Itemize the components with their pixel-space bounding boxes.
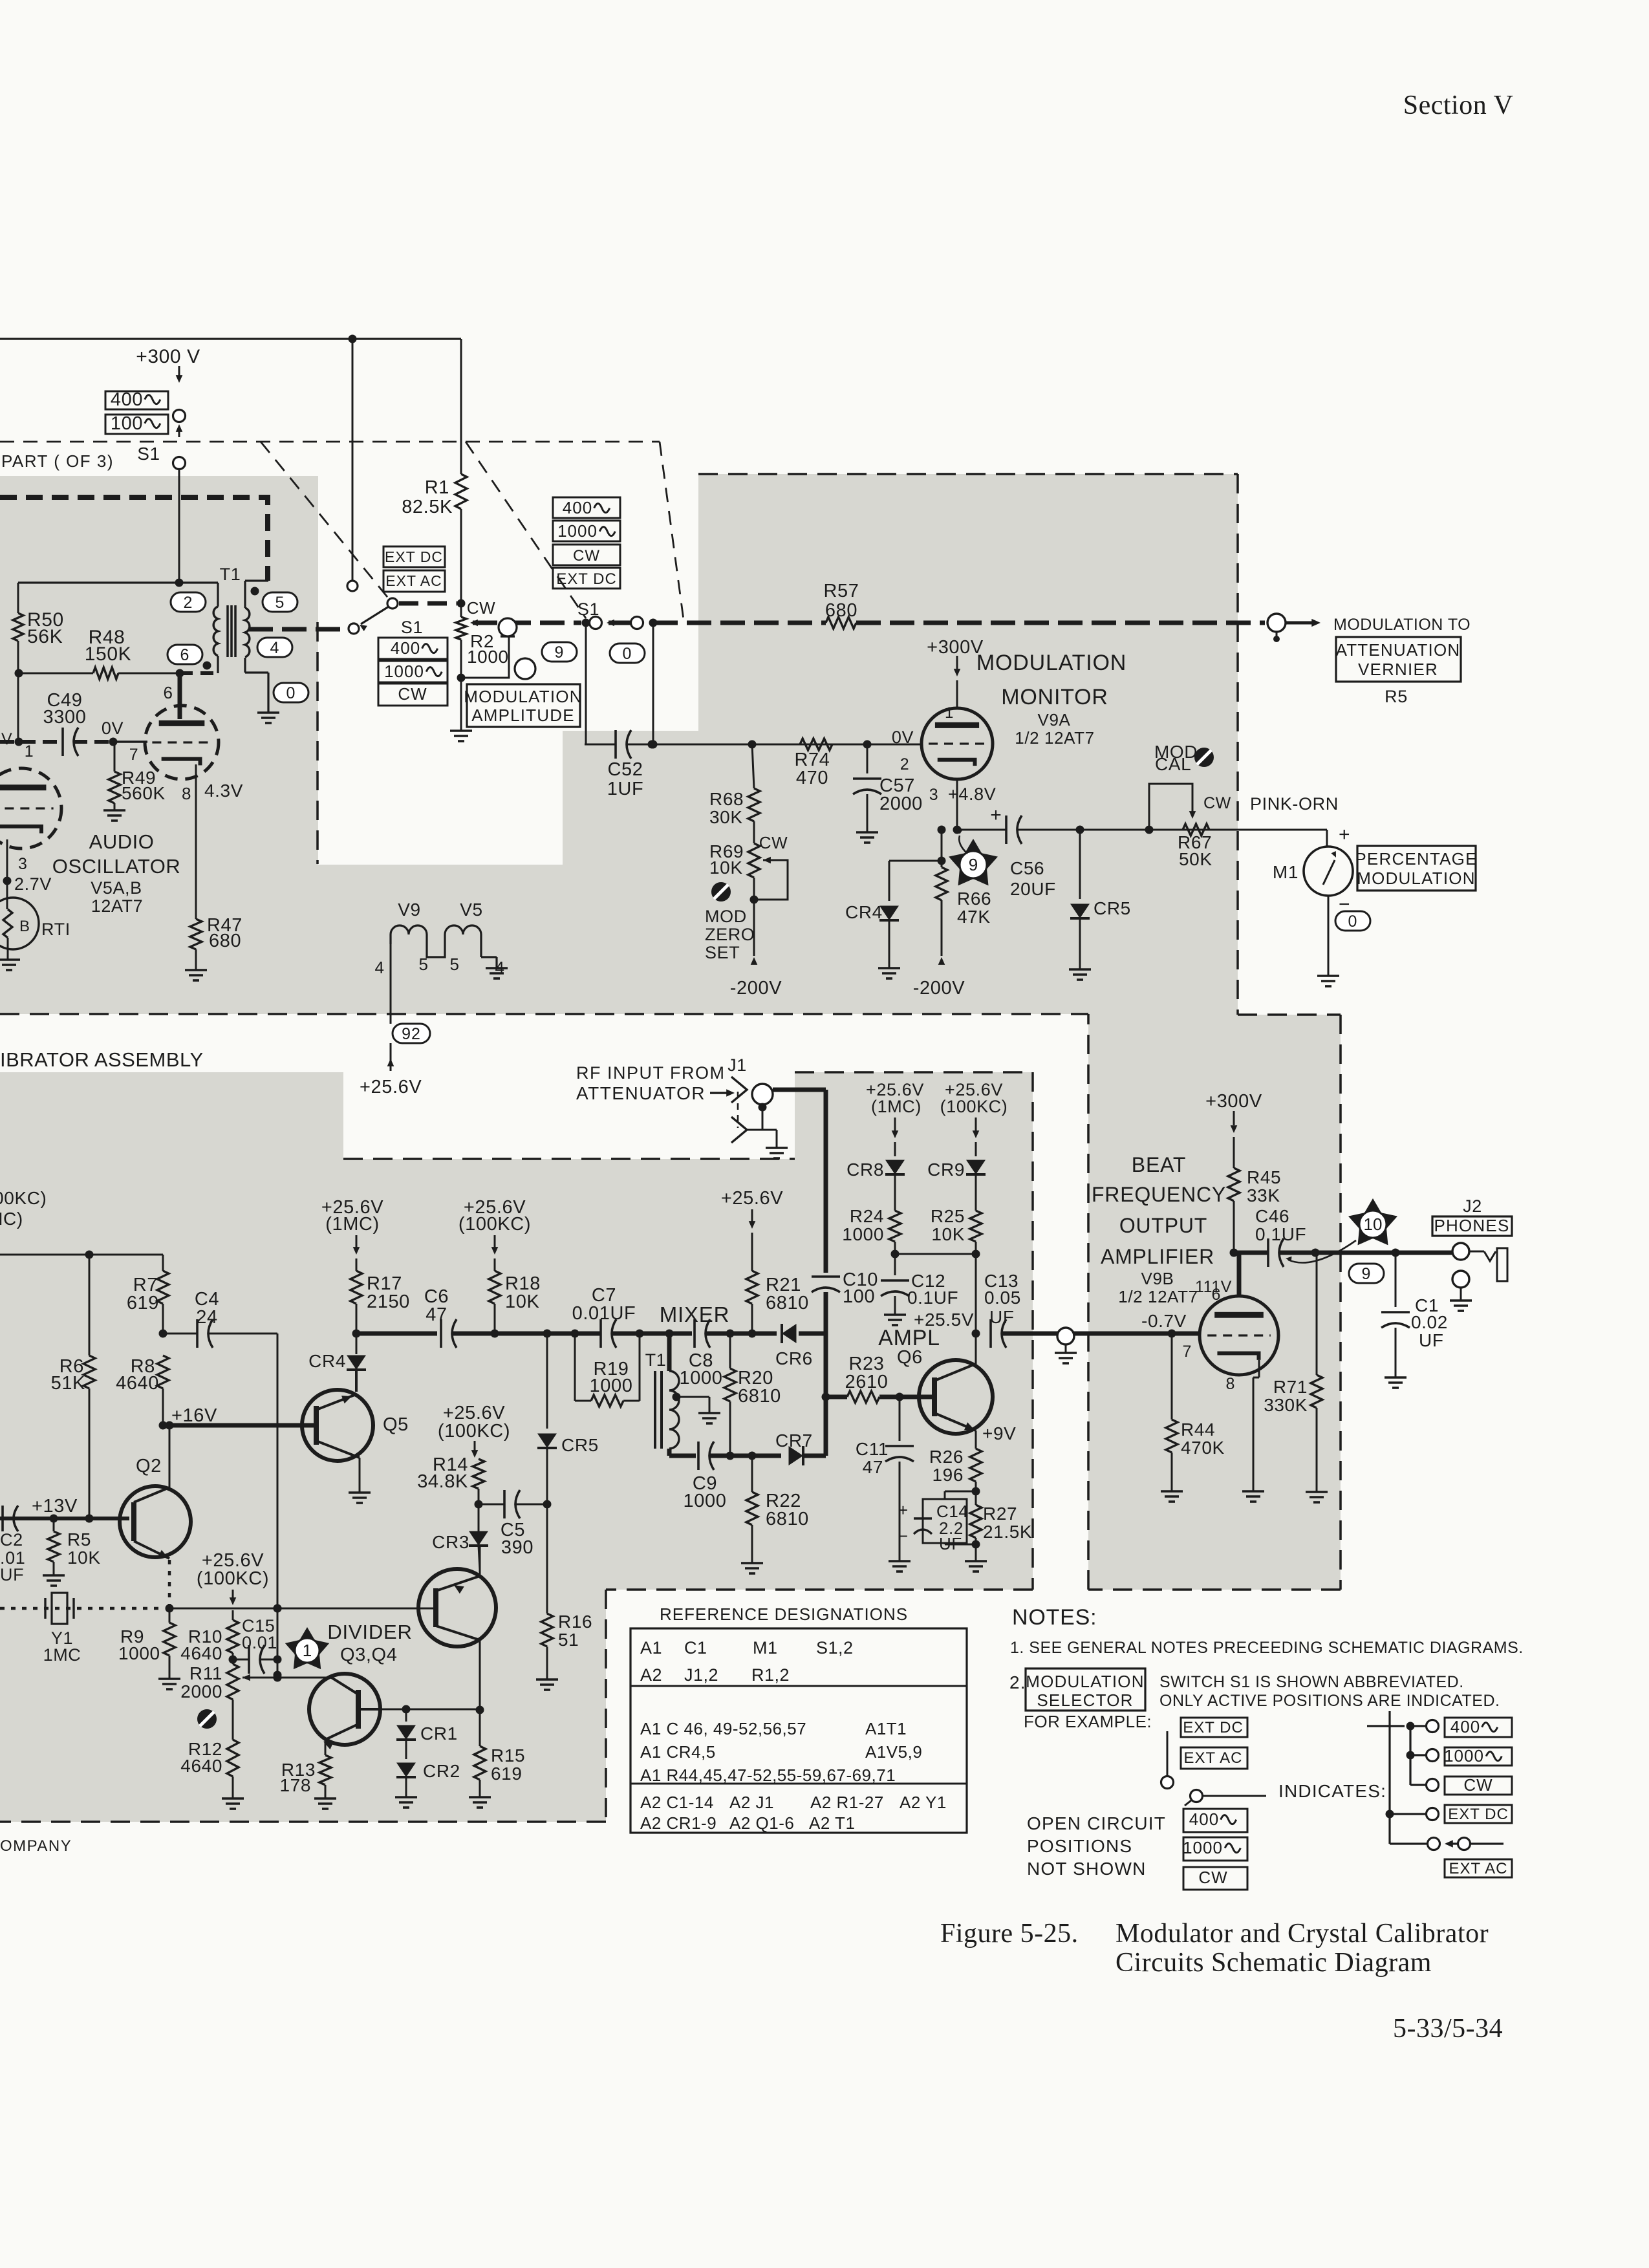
svg-text:EXT DC: EXT DC [556,570,617,588]
svg-text:150K: 150K [85,643,131,665]
svg-text:4640: 4640 [116,1373,159,1394]
svg-text:CW: CW [398,684,427,704]
svg-text:S1,2: S1,2 [816,1638,854,1658]
svg-text:CW: CW [467,598,496,618]
svg-text:47K: 47K [957,907,991,927]
svg-text:RTI: RTI [41,920,70,939]
svg-text:51: 51 [558,1630,579,1650]
svg-text:2150: 2150 [367,1291,410,1312]
svg-text:2.: 2. [1009,1672,1026,1692]
svg-text:+: + [1339,824,1350,845]
svg-text:1000: 1000 [842,1224,884,1244]
svg-text:FOR EXAMPLE:: FOR EXAMPLE: [1024,1712,1152,1731]
svg-text:C11: C11 [856,1439,889,1459]
svg-text:2.7V: 2.7V [14,874,52,894]
svg-text:7: 7 [1182,1343,1192,1361]
svg-text:(100KC): (100KC) [0,1188,47,1208]
svg-text:5-33/5-34: 5-33/5-34 [1393,2014,1503,2044]
svg-text:0V: 0V [102,718,124,738]
svg-text:+13V: +13V [32,1496,78,1517]
svg-text:C52: C52 [608,759,643,780]
svg-text:+300 V: +300 V [136,346,200,367]
svg-text:5: 5 [418,955,428,974]
svg-text:EXT DC: EXT DC [385,548,443,565]
svg-text:Q6: Q6 [897,1347,923,1368]
svg-text:9: 9 [1362,1265,1372,1283]
svg-text:A2 Q1-6: A2 Q1-6 [729,1813,794,1833]
svg-text:1000: 1000 [467,647,509,667]
svg-text:10K: 10K [505,1291,539,1312]
svg-text:4: 4 [270,639,280,657]
svg-text:2000: 2000 [180,1681,222,1701]
svg-text:619: 619 [127,1293,159,1313]
svg-text:NOT SHOWN: NOT SHOWN [1027,1859,1147,1879]
svg-text:400: 400 [391,638,420,658]
svg-text:33K: 33K [1247,1185,1280,1205]
svg-text:Q3,Q4: Q3,Q4 [340,1645,397,1665]
svg-text:−: − [898,1526,908,1546]
svg-text:V9: V9 [398,900,420,920]
svg-text:0V: 0V [892,728,914,747]
svg-text:MODULATION TO: MODULATION TO [1333,616,1471,634]
svg-text:V9B: V9B [1141,1269,1174,1288]
svg-text:A2 J1: A2 J1 [729,1793,774,1812]
svg-text:EXT DC: EXT DC [1448,1806,1509,1823]
svg-text:+25.6V: +25.6V [721,1188,783,1209]
svg-text:CR8: CR8 [846,1160,884,1180]
svg-text:ZERO: ZERO [705,925,755,944]
svg-text:2: 2 [900,755,910,773]
svg-text:EXT AC: EXT AC [1184,1749,1243,1767]
svg-text:8: 8 [182,784,191,803]
svg-text:C2: C2 [0,1530,23,1550]
svg-text:V: V [1,730,12,748]
svg-text:111V: 111V [1195,1278,1232,1296]
svg-text:UF: UF [989,1307,1015,1327]
svg-text:0.01UF: 0.01UF [572,1303,636,1324]
svg-text:UF: UF [1419,1330,1444,1350]
svg-text:R66: R66 [957,889,991,909]
svg-text:M1: M1 [1273,862,1299,882]
svg-text:CR2: CR2 [423,1761,460,1781]
svg-text:100: 100 [111,413,143,434]
svg-text:3: 3 [929,786,939,804]
svg-text:3300: 3300 [43,707,87,728]
svg-text:A1 C 46, 49-52,56,57: A1 C 46, 49-52,56,57 [640,1719,806,1738]
svg-text:NOTES:: NOTES: [1012,1605,1097,1630]
svg-text:OMPANY: OMPANY [0,1837,72,1855]
svg-text:9: 9 [969,855,978,874]
svg-text:82.5K: 82.5K [402,497,453,517]
svg-text:0: 0 [1348,913,1358,931]
svg-text:R24: R24 [850,1206,884,1226]
svg-text:0.1UF: 0.1UF [907,1288,958,1308]
svg-text:470: 470 [796,768,828,788]
svg-text:SWITCH S1 IS SHOWN ABBREVIATED: SWITCH S1 IS SHOWN ABBREVIATED. [1159,1673,1464,1691]
svg-text:A2 CR1-9: A2 CR1-9 [640,1813,717,1833]
svg-text:A1: A1 [640,1638,662,1658]
svg-text:400: 400 [563,498,592,517]
svg-text:FREQUENCY: FREQUENCY [1092,1183,1226,1206]
svg-text:J1,2: J1,2 [684,1665,718,1685]
svg-text:MODULATION: MODULATION [464,687,582,706]
svg-text:0.01: 0.01 [242,1633,277,1652]
svg-text:PART ( OF 3): PART ( OF 3) [1,451,114,471]
svg-text:A1V5,9: A1V5,9 [865,1742,922,1762]
svg-text:R11: R11 [189,1663,222,1683]
svg-text:619: 619 [491,1764,523,1784]
svg-text:CW: CW [1198,1868,1227,1887]
svg-text:10K: 10K [67,1548,101,1568]
svg-text:UF: UF [0,1565,24,1584]
svg-text:CW: CW [1203,794,1231,812]
svg-text:R16: R16 [558,1612,592,1632]
svg-text:A2 C1-14: A2 C1-14 [640,1793,714,1812]
svg-text:2: 2 [184,594,193,612]
svg-text:CR4: CR4 [845,902,883,922]
svg-text:5: 5 [449,955,459,974]
svg-text:EXT DC: EXT DC [1183,1719,1244,1736]
svg-text:VERNIER: VERNIER [1358,660,1438,679]
svg-text:A1T1: A1T1 [865,1719,907,1738]
svg-text:S1: S1 [137,444,160,464]
svg-text:EXT AC: EXT AC [1449,1860,1508,1877]
svg-text:AUDIO: AUDIO [89,830,155,853]
svg-text:1: 1 [303,1641,312,1660]
svg-text:CR5: CR5 [561,1435,599,1455]
svg-text:8: 8 [1225,1375,1235,1393]
svg-text:AMPLITUDE: AMPLITUDE [471,706,575,725]
svg-text:CR5: CR5 [1094,898,1131,918]
svg-text:4: 4 [495,958,504,977]
svg-text:(1MC): (1MC) [0,1209,23,1229]
svg-text:SELECTOR: SELECTOR [1037,1690,1133,1710]
svg-text:EXT AC: EXT AC [385,572,442,589]
svg-text:10K: 10K [931,1224,965,1244]
svg-text:CR1: CR1 [420,1723,458,1744]
svg-text:R57: R57 [824,581,859,601]
svg-text:CR6: CR6 [775,1348,813,1368]
svg-text:A2: A2 [640,1665,662,1685]
svg-text:Q2: Q2 [136,1456,162,1476]
svg-text:(100KC): (100KC) [438,1421,510,1442]
svg-text:A1 R44,45,47-52,55-59,67-69,71: A1 R44,45,47-52,55-59,67-69,71 [640,1766,896,1785]
svg-text:12AT7: 12AT7 [91,896,144,916]
svg-text:6: 6 [180,646,190,664]
svg-text:20UF: 20UF [1010,879,1056,899]
svg-text:51K: 51K [51,1373,85,1394]
svg-text:6810: 6810 [766,1509,809,1529]
svg-text:7: 7 [129,746,139,764]
svg-text:1000: 1000 [680,1368,723,1388]
svg-text:V9A: V9A [1038,710,1071,729]
svg-text:J2: J2 [1463,1196,1482,1216]
svg-text:Q5: Q5 [383,1414,409,1435]
svg-text:PHONES: PHONES [1434,1216,1509,1235]
svg-text:680: 680 [825,600,857,621]
svg-text:CR3: CR3 [432,1532,469,1552]
svg-text:6: 6 [163,683,173,702]
svg-text:CAL: CAL [1155,754,1191,774]
svg-text:+: + [898,1500,908,1520]
svg-text:A2 T1: A2 T1 [809,1813,855,1833]
svg-text:1000: 1000 [1444,1746,1484,1766]
svg-text:1000: 1000 [118,1643,160,1663]
svg-text:6810: 6810 [766,1293,809,1313]
svg-text:CR9: CR9 [927,1160,965,1180]
svg-text:ATTENUATOR: ATTENUATOR [576,1083,706,1103]
svg-text:400: 400 [111,389,143,410]
svg-text:Modulator and Crystal Calibrat: Modulator and Crystal Calibrator [1115,1919,1489,1949]
svg-text:34.8K: 34.8K [417,1471,468,1492]
svg-text:OSCILLATOR: OSCILLATOR [52,855,181,878]
svg-text:1MC: 1MC [43,1645,81,1665]
svg-text:MODULATION: MODULATION [1026,1672,1144,1691]
svg-text:INDICATES:: INDICATES: [1278,1781,1386,1801]
svg-text:REFERENCE DESIGNATIONS: REFERENCE DESIGNATIONS [660,1604,908,1624]
svg-text:R27: R27 [983,1504,1017,1524]
svg-text:V5A,B: V5A,B [91,878,142,898]
svg-text:R26: R26 [929,1447,964,1467]
svg-text:330K: 330K [1264,1395,1308,1415]
svg-text:POSITIONS: POSITIONS [1027,1836,1132,1856]
svg-text:MODULATION: MODULATION [976,651,1126,675]
svg-text:1UF: 1UF [607,779,644,799]
svg-text:Circuits Schematic Diagram: Circuits Schematic Diagram [1115,1948,1432,1978]
svg-text:R5: R5 [1385,687,1408,706]
svg-text:400: 400 [1189,1809,1219,1829]
svg-text:OPEN CIRCUIT: OPEN CIRCUIT [1027,1813,1166,1833]
svg-text:3: 3 [18,855,28,873]
svg-text:+16V: +16V [171,1405,217,1426]
svg-text:560K: 560K [122,783,166,803]
svg-text:PINK-ORN: PINK-ORN [1250,794,1339,814]
svg-text:1: 1 [25,742,34,761]
svg-text:C1: C1 [684,1638,707,1658]
svg-text:1/2 12AT7: 1/2 12AT7 [1118,1287,1198,1306]
svg-text:DIVIDER: DIVIDER [327,1621,412,1643]
svg-text:-200V: -200V [913,978,965,999]
svg-text:470K: 470K [1181,1438,1225,1458]
svg-text:AMPLIFIER: AMPLIFIER [1101,1245,1214,1268]
svg-text:R1,2: R1,2 [751,1665,790,1685]
svg-text:(100KC): (100KC) [197,1568,269,1589]
svg-text:+300V: +300V [927,637,984,658]
svg-text:R44: R44 [1181,1420,1215,1440]
svg-text:2610: 2610 [845,1372,889,1392]
svg-text:A1 CR4,5: A1 CR4,5 [640,1742,716,1762]
svg-text:PERCENTAGE: PERCENTAGE [1355,849,1477,869]
svg-text:IBRATOR ASSEMBLY: IBRATOR ASSEMBLY [0,1048,204,1071]
svg-text:92: 92 [402,1025,421,1043]
svg-text:CW: CW [759,833,788,852]
svg-text:0.02: 0.02 [1411,1312,1448,1332]
svg-text:6810: 6810 [738,1386,781,1407]
svg-text:RF INPUT FROM: RF INPUT FROM [576,1063,726,1083]
svg-text:ONLY ACTIVE POSITIONS ARE IND: ONLY ACTIVE POSITIONS ARE INDICATED. [1159,1692,1500,1710]
svg-text:1000: 1000 [590,1376,633,1396]
svg-text:C46: C46 [1255,1206,1289,1226]
svg-text:+: + [990,805,1002,826]
svg-text:A2 Y1: A2 Y1 [900,1793,947,1812]
svg-text:30K: 30K [709,807,743,827]
svg-text:SET: SET [705,943,740,962]
svg-text:+25.6V: +25.6V [360,1077,422,1097]
svg-text:B: B [19,918,30,935]
svg-text:R1: R1 [425,477,449,498]
svg-text:1. SEE GENERAL NOTES PRECEEDIN: 1. SEE GENERAL NOTES PRECEEDING SCHEMATI… [1010,1639,1524,1657]
svg-text:1/2 12AT7: 1/2 12AT7 [1015,728,1094,748]
svg-text:CR7: CR7 [775,1431,813,1451]
svg-text:178: 178 [279,1775,311,1795]
svg-text:A2 R1-27: A2 R1-27 [810,1793,884,1812]
svg-text:R68: R68 [709,789,744,809]
svg-text:R25: R25 [931,1206,965,1226]
svg-text:CR4: CR4 [308,1351,346,1371]
svg-text:0.05: 0.05 [984,1288,1021,1308]
svg-text:R45: R45 [1247,1167,1281,1187]
svg-text:V5: V5 [460,900,482,920]
svg-text:47: 47 [426,1304,447,1325]
svg-text:4640: 4640 [180,1756,222,1776]
svg-text:S1: S1 [401,618,423,637]
svg-text:(1MC): (1MC) [871,1097,921,1116]
svg-text:4.3V: 4.3V [204,781,243,801]
svg-text:50K: 50K [1179,849,1212,869]
svg-text:2000: 2000 [879,794,923,814]
svg-text:R5: R5 [67,1529,91,1550]
svg-text:Section V: Section V [1403,91,1514,120]
svg-text:+4.8V: +4.8V [948,784,996,804]
svg-text:R15: R15 [491,1745,525,1766]
svg-text:4640: 4640 [180,1643,222,1663]
svg-text:47: 47 [863,1457,883,1477]
svg-text:10: 10 [1364,1215,1383,1234]
svg-text:ATTENUATION: ATTENUATION [1336,640,1461,660]
svg-text:1000: 1000 [1183,1838,1223,1857]
svg-text:196: 196 [932,1465,964,1485]
svg-text:1000: 1000 [384,662,424,681]
svg-text:21.5K: 21.5K [983,1522,1032,1542]
svg-text:0: 0 [623,645,632,663]
svg-text:CW: CW [1463,1775,1493,1795]
svg-text:MOD: MOD [705,907,747,926]
svg-text:T1: T1 [645,1350,667,1370]
svg-text:(1MC): (1MC) [325,1214,380,1235]
svg-text:56K: 56K [27,626,63,647]
svg-text:+300V: +300V [1205,1091,1262,1112]
svg-text:5: 5 [275,594,285,612]
svg-text:390: 390 [501,1537,533,1558]
svg-text:T1: T1 [220,565,241,584]
svg-text:-0.7V: -0.7V [1141,1311,1187,1331]
svg-text:10K: 10K [709,858,743,878]
svg-text:(100KC): (100KC) [458,1214,531,1235]
svg-text:9: 9 [555,643,565,662]
svg-text:4: 4 [374,958,384,977]
svg-text:400: 400 [1450,1717,1480,1736]
svg-text:BEAT: BEAT [1132,1153,1186,1176]
svg-text:MONITOR: MONITOR [1001,685,1108,709]
svg-text:0: 0 [286,684,296,702]
svg-text:R71: R71 [1273,1377,1308,1397]
svg-text:(100KC): (100KC) [940,1097,1008,1116]
svg-text:1000: 1000 [684,1491,727,1511]
svg-text:1000: 1000 [557,521,598,541]
svg-text:100: 100 [843,1286,875,1307]
svg-text:-200V: -200V [730,978,782,999]
svg-text:C56: C56 [1010,858,1044,878]
svg-text:+9V: +9V [982,1423,1016,1443]
svg-text:MODULATION: MODULATION [1357,869,1475,888]
svg-text:CW: CW [573,547,600,565]
svg-text:680: 680 [209,931,241,951]
svg-text:OUTPUT: OUTPUT [1119,1214,1207,1237]
svg-text:Figure 5-25.: Figure 5-25. [940,1919,1079,1949]
svg-text:24: 24 [196,1307,217,1328]
svg-text:UF: UF [939,1534,962,1553]
svg-text:M1: M1 [753,1638,778,1658]
svg-text:J1: J1 [727,1055,747,1075]
